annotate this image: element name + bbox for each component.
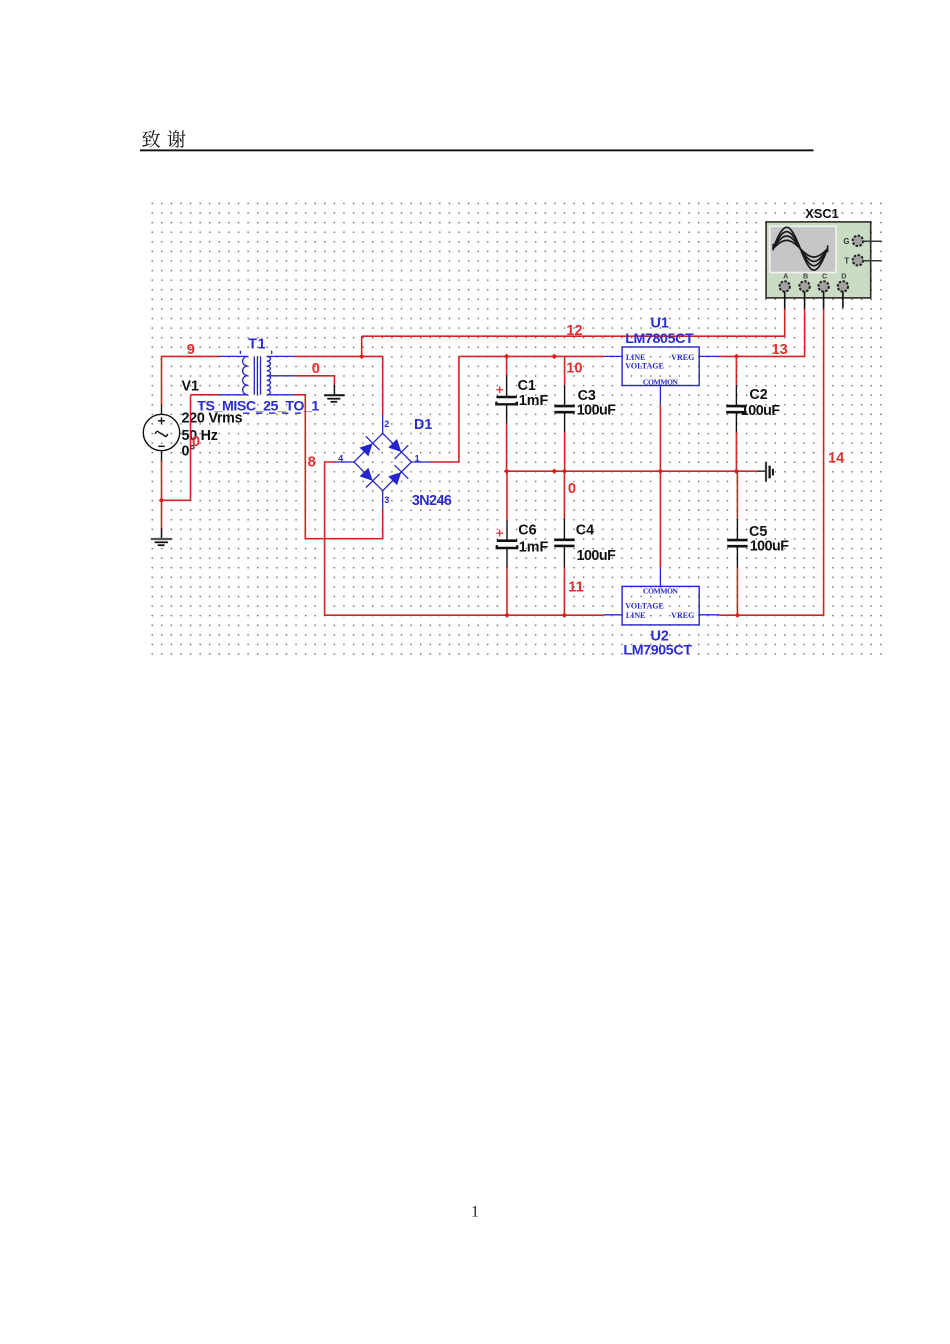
wire node 12 riser from rail — [361, 336, 363, 356]
wire C5 to bottom rail — [736, 568, 738, 616]
svg-text:C4: C4 — [576, 523, 594, 539]
scope terminal G wire — [863, 240, 882, 242]
wire T1 center tap to ground — [294, 376, 334, 385]
svg-text:COMMON: COMMON — [643, 377, 679, 386]
svg-text:0: 0 — [192, 434, 200, 450]
wire jog vertical x=190.5 — [190, 395, 192, 501]
wire mid rail to C6 — [506, 471, 508, 521]
svg-text:3: 3 — [384, 495, 389, 505]
svg-text:COMMON: COMMON — [643, 587, 679, 596]
wire V1 top to node 9 corner — [161, 357, 163, 405]
C6 plus sign — [496, 530, 503, 537]
svg-text:0: 0 — [312, 361, 320, 377]
svg-text:V1: V1 — [182, 379, 200, 395]
wire U2 common to mid rail — [659, 471, 661, 567]
svg-text:14: 14 — [828, 450, 845, 466]
svg-text:XSC1: XSC1 — [805, 206, 838, 221]
wire rail to C2 — [735, 356, 737, 385]
wire jog V1 bottom to T1 primary bottom (horizontal) — [162, 499, 191, 501]
scope terminal T wire — [863, 260, 882, 262]
svg-text:1: 1 — [415, 454, 420, 464]
svg-text:3N246: 3N246 — [412, 493, 452, 509]
diode D1c (left-bottom edge) — [360, 468, 373, 481]
junction C6 bottom — [504, 613, 509, 618]
capacitor C1 — [496, 376, 516, 424]
scope terminal C stub — [823, 292, 825, 309]
diode D1d (bottom-right edge) — [388, 472, 401, 485]
wire V1 bottom down to ground — [161, 462, 163, 530]
svg-text:TS_MISC_25_TO_1: TS_MISC_25_TO_1 — [197, 398, 319, 414]
svg-text:12: 12 — [566, 323, 582, 339]
svg-text:LINE: LINE — [626, 611, 646, 620]
svg-text:U1: U1 — [651, 316, 669, 332]
scope terminal A stub — [784, 292, 786, 309]
svg-text:1mF: 1mF — [519, 539, 549, 555]
wire T1 secondary bottom corner — [294, 395, 382, 539]
wire node 9 horizontal to T1 primary top — [161, 355, 219, 357]
capacitor C5 — [727, 519, 747, 568]
svg-text:11: 11 — [568, 579, 583, 595]
ground (node 0 rail, right) — [757, 462, 773, 482]
ground (V1) — [151, 529, 172, 546]
junction C1 bottom — [504, 469, 509, 474]
svg-text:B: B — [803, 272, 808, 281]
wire bridge pin4 to bottom rail — [325, 462, 604, 615]
svg-text:G: G — [843, 237, 849, 246]
capacitor C4 — [554, 518, 574, 567]
svg-text:A: A — [783, 272, 788, 281]
wire bridge pin2 riser — [382, 356, 384, 414]
ground (T1 center tap) — [324, 385, 345, 402]
svg-text:C1: C1 — [518, 378, 536, 394]
transformer T1 — [219, 351, 301, 414]
junction at V1 bottom node — [159, 498, 164, 503]
wire rail to C3 — [564, 356, 566, 386]
wire node 12 horizontal rail — [362, 335, 785, 337]
wire rail U1 right to scope B (node 13) — [719, 355, 804, 357]
wire C6 to bottom rail — [506, 567, 508, 615]
page heading: zhi xie (Acknowledgements) — [142, 130, 185, 148]
junction U1/U2 common — [658, 469, 663, 474]
svg-text:10: 10 — [566, 360, 582, 376]
junction C1 top — [504, 354, 509, 359]
diode D1a (left-top edge) — [360, 443, 373, 456]
wire C1 to mid rail — [506, 423, 508, 471]
svg-text:100uF: 100uF — [750, 538, 790, 554]
ac voltage source V1 — [143, 405, 179, 463]
voltage regulator U2 — [604, 567, 720, 625]
wire scope channel C drop (node 14) — [719, 308, 823, 615]
wire bridge pin1 to rail riser — [431, 356, 459, 462]
svg-text:VREG: VREG — [671, 611, 694, 620]
svg-text:8: 8 — [308, 454, 316, 470]
wire scope channel B drop — [804, 308, 806, 357]
wire middle rail node 0 — [507, 470, 758, 472]
C1 plus sign — [496, 386, 503, 393]
svg-text:D1: D1 — [414, 417, 432, 433]
scope terminal B stub — [804, 292, 806, 309]
junction C5 bottom — [735, 613, 740, 618]
svg-text:0: 0 — [568, 481, 576, 497]
junction mid-rail tap — [552, 469, 557, 474]
wire rail to C1 — [506, 356, 508, 376]
svg-text:1: 1 — [471, 1204, 479, 1221]
wire scope channel A drop — [784, 308, 786, 337]
svg-text:D: D — [841, 272, 846, 281]
junction node 10 tap — [552, 354, 557, 359]
svg-text:LINE: LINE — [626, 353, 646, 362]
svg-text:100uF: 100uF — [577, 403, 617, 419]
oscilloscope XSC1 — [766, 222, 871, 298]
scope terminal D stub — [842, 292, 844, 308]
svg-text:LM7805CT: LM7805CT — [625, 331, 694, 347]
junction C2 top — [734, 354, 739, 359]
diode D1b (top-right edge) — [388, 439, 401, 452]
svg-text:13: 13 — [772, 342, 788, 358]
svg-text:C2: C2 — [749, 387, 767, 403]
wire U1 common to mid rail — [659, 405, 661, 471]
wire mid rail to C4 — [563, 471, 565, 518]
svg-text:C: C — [822, 272, 827, 281]
svg-text:VOLTAGE: VOLTAGE — [625, 362, 664, 371]
capacitor C6 — [497, 521, 517, 568]
junction C4 bottom — [562, 613, 567, 618]
svg-text:LM7905CT: LM7905CT — [623, 643, 692, 659]
capacitor C2 — [726, 385, 746, 432]
wire T1 secondary top to rail — [294, 355, 383, 357]
heading underline — [140, 149, 814, 151]
wire C3 to mid rail — [564, 432, 566, 471]
junction C2 bottom — [734, 469, 739, 474]
svg-text:4: 4 — [338, 454, 343, 464]
svg-text:100uF: 100uF — [741, 403, 781, 419]
wire C4 to bottom rail — [563, 567, 565, 615]
svg-text:C6: C6 — [518, 523, 536, 539]
svg-text:VREG: VREG — [671, 353, 694, 362]
wire main rail to U1 (node 10) — [459, 355, 604, 357]
svg-text:2: 2 — [384, 419, 389, 429]
wire mid rail to C5 — [736, 471, 738, 519]
junction C3 bottom — [562, 469, 567, 474]
voltage regulator U1 — [604, 347, 720, 405]
wire to T1 primary bottom — [191, 394, 220, 396]
capacitor C3 — [554, 386, 574, 433]
svg-text:T1: T1 — [248, 337, 266, 353]
svg-text:9: 9 — [187, 342, 195, 358]
svg-text:T: T — [844, 257, 849, 266]
junction node 12 tap on main rail — [359, 354, 364, 359]
svg-text:100uF: 100uF — [577, 548, 617, 564]
wire bridge pin3 drop — [382, 509, 384, 539]
svg-text:VOLTAGE: VOLTAGE — [625, 602, 664, 611]
wire C2 to mid rail — [735, 432, 737, 471]
svg-text:1mF: 1mF — [519, 393, 549, 409]
bridge rectifier D1 — [334, 415, 430, 510]
